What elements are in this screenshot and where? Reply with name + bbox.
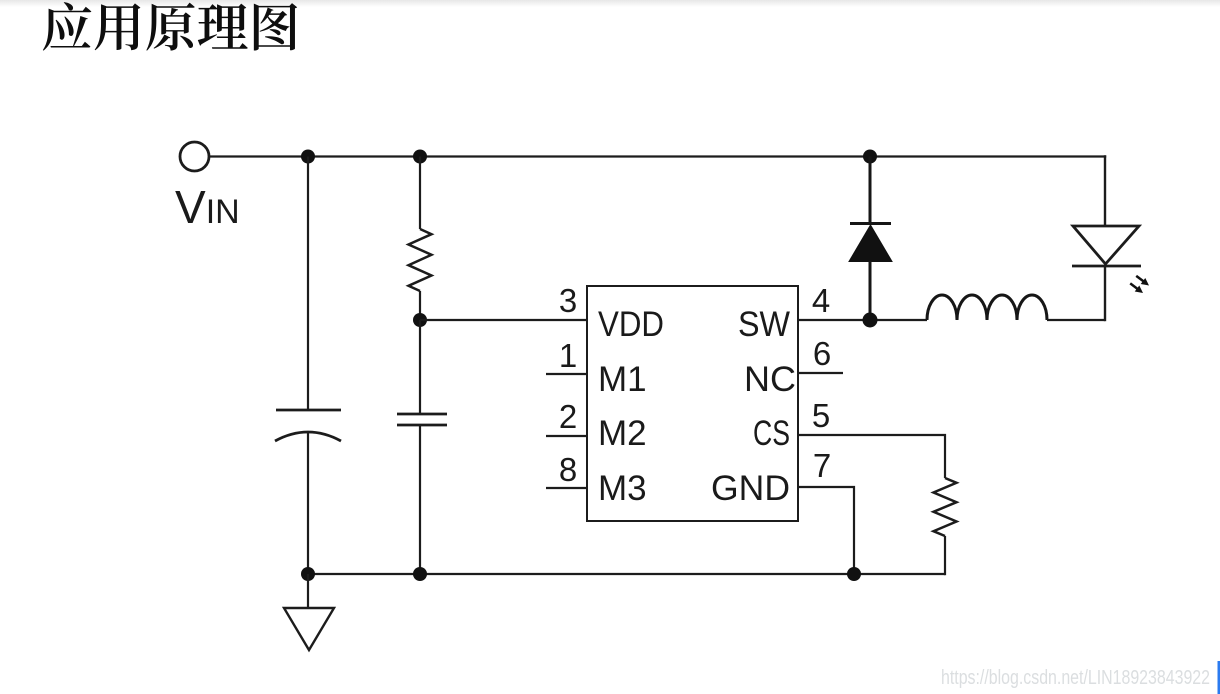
resistor R1	[409, 229, 432, 291]
pin 6 stub	[798, 372, 843, 374]
wire VDD pin3	[420, 319, 587, 321]
pin 2 stub	[546, 435, 587, 437]
diode D1 triangle	[849, 225, 892, 262]
wire bottom rail	[308, 573, 945, 575]
node J6	[847, 567, 861, 581]
blue scrollbar fragment	[1218, 661, 1220, 694]
svg-text:SW: SW	[738, 305, 790, 344]
wire C2 branch lower	[419, 425, 421, 574]
wire L1 to LED	[1047, 319, 1105, 321]
LED D2 bar	[1072, 265, 1141, 268]
diode D1 lower wire	[869, 261, 872, 320]
pin 8 stub	[546, 487, 587, 489]
LED D2 triangle	[1073, 226, 1139, 264]
node J5	[863, 313, 878, 328]
svg-text:NC: NC	[744, 360, 796, 399]
wire GND pin7	[798, 487, 854, 574]
wire C1 branch upper	[307, 157, 309, 411]
wire top rail	[210, 155, 1107, 157]
node J1	[301, 150, 315, 164]
svg-text:M3: M3	[598, 469, 647, 508]
node J4	[413, 313, 427, 327]
diode D1 anode wire	[869, 157, 872, 224]
svg-text:6: 6	[813, 335, 831, 372]
wire R2 lower	[944, 536, 946, 575]
svg-text:4: 4	[812, 282, 830, 319]
ground stub	[307, 574, 309, 608]
capacitor C1	[275, 410, 341, 441]
IC U1 body	[587, 286, 798, 521]
svg-text:1: 1	[559, 337, 577, 374]
node J3	[863, 150, 877, 164]
capacitor C2	[397, 414, 447, 425]
wire SW pin4	[798, 319, 927, 321]
svg-text:8: 8	[559, 451, 577, 488]
wire LED top feed	[1104, 155, 1106, 226]
LED D2 emission arrows	[1128, 273, 1151, 296]
svg-text:VDD: VDD	[598, 305, 664, 344]
wire C1 branch lower	[307, 433, 309, 574]
svg-text:3: 3	[559, 282, 577, 319]
svg-text:7: 7	[813, 447, 831, 484]
svg-text:GND: GND	[711, 469, 790, 508]
svg-text:https://blog.csdn.net/LIN18923: https://blog.csdn.net/LIN18923843922	[941, 667, 1210, 689]
LED D2 lower wire	[1104, 266, 1106, 321]
svg-text:CS: CS	[753, 414, 790, 453]
terminal VIN	[180, 142, 209, 171]
title 应用原理图	[43, 2, 297, 51]
svg-text:M2: M2	[598, 414, 647, 453]
pin 1 stub	[546, 373, 587, 375]
svg-text:2: 2	[559, 398, 577, 435]
diode D1 cathode bar	[850, 222, 891, 225]
node J2	[413, 150, 427, 164]
node J8	[413, 567, 427, 581]
svg-text:5: 5	[812, 397, 830, 434]
inductor L1	[927, 295, 1047, 320]
wire C2 branch upper	[419, 320, 421, 414]
svg-text:M1: M1	[598, 360, 647, 399]
wire R1 to node	[419, 291, 421, 320]
resistor R2	[934, 478, 957, 536]
node J7	[301, 567, 315, 581]
wire CS pin5	[798, 435, 945, 478]
top gray gradient band	[0, 0, 1220, 7]
ground symbol	[284, 608, 334, 650]
wire R1 branch upper	[419, 157, 421, 230]
